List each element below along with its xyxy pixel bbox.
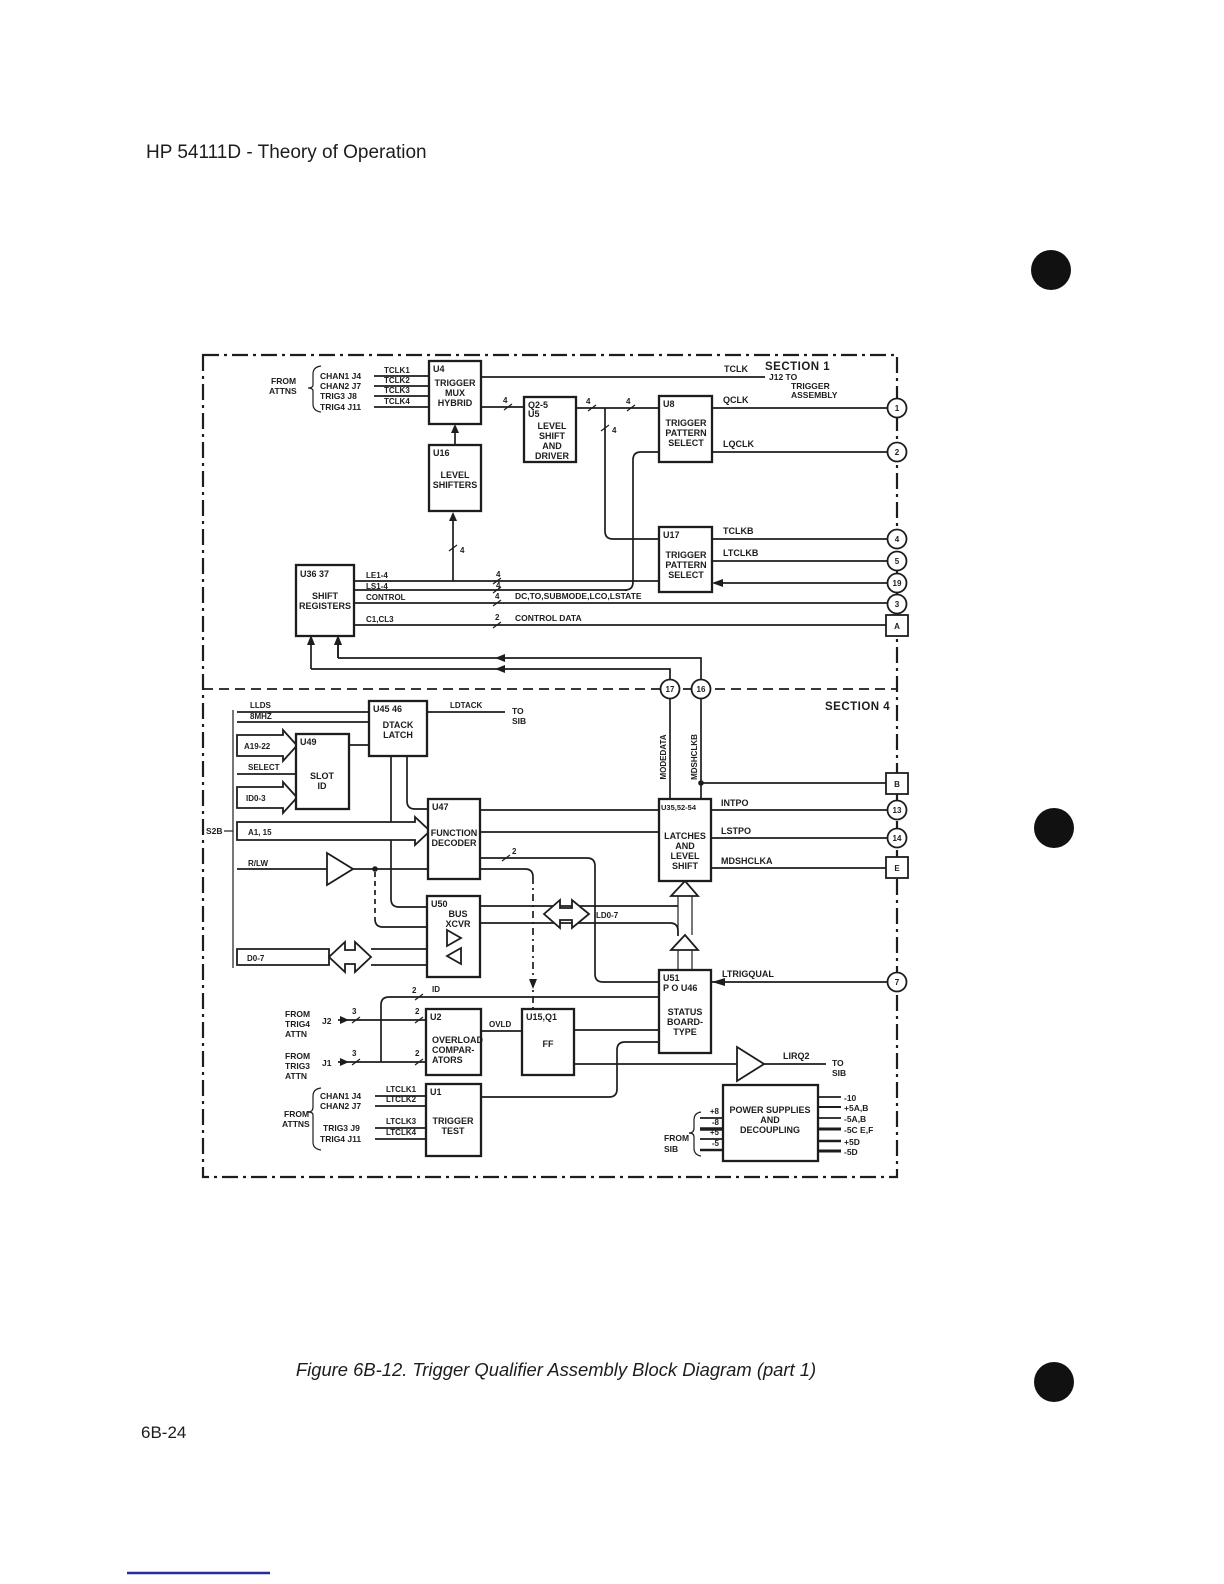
bus ID0-3 into U49 — [237, 782, 297, 813]
wire dashed from R/LW node down to U50 — [375, 872, 427, 927]
svg-text:LD0-7: LD0-7 — [596, 911, 619, 920]
svg-text:7: 7 — [895, 978, 900, 987]
svg-text:FROM: FROM — [664, 1133, 689, 1143]
svg-text:4: 4 — [626, 397, 631, 406]
slot id U49 — [296, 734, 349, 809]
wire OVLD from U2 to FF — [481, 1020, 522, 1031]
svg-text:COMPAR-: COMPAR- — [432, 1045, 474, 1055]
svg-text:19: 19 — [893, 579, 902, 588]
svg-text:LTCLK3: LTCLK3 — [386, 1117, 417, 1126]
wire to connector box B — [701, 782, 886, 784]
svg-text:ID: ID — [432, 985, 440, 994]
svg-text:BOARD-: BOARD- — [667, 1017, 703, 1027]
wire from LE1-4 up into U16, width 4 — [449, 512, 465, 581]
svg-text:2: 2 — [895, 448, 900, 457]
level shift and driver Q2-5 U5 — [524, 397, 576, 462]
svg-text:LEVEL: LEVEL — [670, 851, 700, 861]
svg-text:TRIG3 J9: TRIG3 J9 — [323, 1123, 360, 1133]
svg-text:PATTERN: PATTERN — [665, 560, 706, 570]
svg-text:MODEDATA: MODEDATA — [659, 734, 668, 779]
wire CONTROL from U36 to connector 3 (DC,TO,SUBMODE,LCO,LSTATE), width 4 — [354, 591, 888, 606]
wire U5 to U8, width 4 — [576, 397, 659, 411]
svg-text:SHIFT: SHIFT — [312, 591, 339, 601]
svg-text:TRIGGER: TRIGGER — [665, 418, 707, 428]
wire +8 from SIB — [700, 1107, 723, 1118]
wire FF to U51 — [574, 1029, 659, 1031]
wire +5A,B supply output — [818, 1103, 868, 1113]
svg-text:17: 17 — [666, 685, 675, 694]
svg-text:U2: U2 — [430, 1012, 442, 1022]
svg-text:U50: U50 — [431, 899, 448, 909]
svg-text:5: 5 — [895, 557, 900, 566]
punch dot bottom right — [1034, 1362, 1074, 1402]
svg-text:AND: AND — [542, 441, 562, 451]
flip-flop U15,Q1 — [522, 1009, 574, 1075]
svg-text:POWER SUPPLIES: POWER SUPPLIES — [729, 1105, 810, 1115]
wire LIRQ2 to SIB — [764, 1051, 846, 1078]
svg-text:LTCLK1: LTCLK1 — [386, 1085, 417, 1094]
svg-text:TRIG3 J8: TRIG3 J8 — [320, 391, 357, 401]
svg-text:SIB: SIB — [664, 1144, 678, 1154]
wire TCLK from U4 to J12 — [481, 364, 838, 400]
wire feedback from connector 17 into U36 bottom — [307, 635, 670, 680]
svg-text:16: 16 — [697, 685, 706, 694]
punch dot middle right — [1034, 808, 1074, 848]
svg-text:REGISTERS: REGISTERS — [299, 601, 351, 611]
svg-text:+5: +5 — [710, 1128, 720, 1137]
svg-text:+8: +8 — [710, 1107, 720, 1116]
svg-text:LTRIGQUAL: LTRIGQUAL — [722, 969, 774, 979]
svg-text:2: 2 — [495, 613, 500, 622]
svg-text:S2B: S2B — [206, 826, 223, 836]
svg-text:TRIG4 J11: TRIG4 J11 — [320, 1134, 361, 1144]
svg-text:XCVR: XCVR — [445, 919, 471, 929]
FROM SIB brace label — [664, 1112, 701, 1156]
connector circle 5 — [888, 552, 907, 571]
svg-text:ATORS: ATORS — [432, 1055, 463, 1065]
svg-text:2: 2 — [415, 1007, 420, 1016]
svg-text:2: 2 — [512, 847, 517, 856]
node junction MDSHCLKB to connector B — [698, 780, 704, 786]
svg-text:ID: ID — [318, 781, 328, 791]
wire ID (2) from J lines to U51 — [381, 985, 659, 1062]
svg-text:-8: -8 — [712, 1118, 720, 1127]
node junction on R/LW line — [372, 866, 378, 872]
connector box B — [886, 773, 908, 794]
status board-type U51 P/O U46 — [659, 970, 711, 1053]
svg-text:1: 1 — [895, 404, 900, 413]
svg-text:DECOUPLING: DECOUPLING — [740, 1125, 800, 1135]
input labels FROM TRIG4 ATTN J2 — [285, 1009, 332, 1039]
svg-text:4: 4 — [460, 546, 465, 555]
wire branch down from U5 output to U17, width 4 — [601, 408, 659, 539]
dtack latch U45 46 — [369, 701, 427, 756]
wire FF to LIRQ2 buffer — [574, 1063, 737, 1065]
bus LD0-7 bidirectional symbol — [544, 900, 619, 928]
svg-text:U47: U47 — [432, 802, 449, 812]
svg-text:A1, 15: A1, 15 — [248, 828, 272, 837]
trigger mux hybrid U4 — [429, 361, 481, 424]
svg-text:E: E — [894, 864, 900, 873]
svg-text:U4: U4 — [433, 364, 445, 374]
svg-text:-10: -10 — [844, 1093, 857, 1103]
svg-text:TCLKB: TCLKB — [723, 526, 754, 536]
connector box A — [886, 615, 908, 636]
S2B bus bracket — [206, 710, 233, 968]
wire J2 into U2, width 3 then 2 — [338, 1007, 426, 1024]
wire -10 supply output — [818, 1093, 857, 1103]
wire U47 to U51, width 2 — [480, 847, 659, 982]
buffer for LIRQ2 — [737, 1047, 764, 1081]
wire U47 to U35 upper — [480, 809, 659, 811]
blue rule bottom left — [127, 1572, 270, 1574]
wire LQCLK from U8 to connector 2 — [712, 439, 888, 452]
svg-text:U17: U17 — [663, 530, 680, 540]
svg-text:SHIFT: SHIFT — [539, 431, 566, 441]
wire U47 to U35 lower — [480, 831, 659, 833]
svg-text:STATUS: STATUS — [668, 1007, 703, 1017]
svg-text:LDTACK: LDTACK — [450, 701, 483, 710]
svg-text:6B-24: 6B-24 — [141, 1423, 186, 1442]
svg-text:ATTN: ATTN — [285, 1029, 307, 1039]
svg-text:HYBRID: HYBRID — [438, 398, 473, 408]
svg-text:U35,52-54: U35,52-54 — [661, 803, 697, 812]
svg-text:MDSHCLKA: MDSHCLKA — [721, 856, 773, 866]
wire feedback from connector 16 into U36 bottom — [334, 635, 701, 680]
svg-text:TCLK1: TCLK1 — [384, 366, 410, 375]
wire J1 into U2, width 3 then 2 — [338, 1049, 426, 1066]
svg-text:TO: TO — [832, 1058, 844, 1068]
wire LD0-7 top line from U50 to latch arrow — [480, 905, 678, 907]
connector circle 4 — [888, 530, 907, 549]
wire -5A,B supply output — [818, 1114, 866, 1124]
wire LTRIGQUAL from connector 7 into U51 — [711, 969, 888, 986]
wire TCLKB from U17 to connector 4 — [712, 526, 888, 539]
svg-text:LS1-4: LS1-4 — [366, 582, 388, 591]
svg-text:CHAN1 J4: CHAN1 J4 — [320, 1091, 361, 1101]
punch dot top right — [1031, 250, 1071, 290]
svg-text:U15,Q1: U15,Q1 — [526, 1012, 557, 1022]
connector circle 17 on divider — [661, 680, 680, 699]
wire LTCLK3 into U1 — [375, 1117, 426, 1128]
svg-text:FROM: FROM — [285, 1009, 310, 1019]
svg-text:LQCLK: LQCLK — [723, 439, 754, 449]
shift registers U36 U37 — [296, 565, 354, 636]
svg-text:D0-7: D0-7 — [247, 954, 265, 963]
overload comparators U2 — [426, 1009, 484, 1075]
wire LD0-7 bottom line from U50 — [480, 923, 678, 936]
wire -8 from SIB — [700, 1118, 723, 1129]
svg-text:4: 4 — [495, 592, 500, 601]
wire -5 from SIB — [700, 1139, 723, 1150]
svg-text:4: 4 — [895, 535, 900, 544]
svg-text:SECTION 4: SECTION 4 — [825, 701, 890, 713]
wire from LS1-4 up into U8 lower left — [625, 452, 659, 590]
input labels FROM ATTNS for U1 (CHAN1 J4 / CHAN2 J7 / TRIG3 J9 / TRIG4 J11) — [282, 1088, 361, 1150]
wire TCLK4 into U4 — [374, 397, 429, 407]
svg-text:BUS: BUS — [448, 909, 467, 919]
trigger pattern select U8 — [659, 396, 712, 462]
svg-text:SELECT: SELECT — [248, 763, 280, 772]
wire MDSHCLKA to connector E — [711, 856, 886, 868]
svg-text:QCLK: QCLK — [723, 395, 749, 405]
svg-text:A: A — [894, 622, 900, 631]
power supplies and decoupling box — [723, 1085, 818, 1161]
svg-text:DC,TO,SUBMODE,LCO,LSTATE: DC,TO,SUBMODE,LCO,LSTATE — [515, 591, 642, 601]
svg-text:TRIG4: TRIG4 — [285, 1019, 310, 1029]
wire MDSHCLKB from connector 16 to U35 — [690, 699, 701, 799]
wire TCLK2 into U4 — [374, 376, 429, 386]
svg-text:P O U46: P O U46 — [663, 983, 697, 993]
svg-text:TYPE: TYPE — [673, 1027, 697, 1037]
svg-text:LEVEL: LEVEL — [537, 421, 567, 431]
svg-text:SIB: SIB — [512, 716, 526, 726]
svg-text:AND: AND — [760, 1115, 780, 1125]
svg-text:-5C E,F: -5C E,F — [844, 1125, 873, 1135]
wire +5 from SIB — [700, 1128, 723, 1139]
connector circle 7 — [888, 973, 907, 992]
bus xcvr U50 — [427, 896, 480, 977]
wire LTCLK1 into U1 — [375, 1085, 426, 1096]
connector circle 19 — [888, 574, 907, 593]
svg-text:LSTPO: LSTPO — [721, 826, 751, 836]
wire SELECT into U49 — [237, 763, 296, 774]
wire from U45 down to U50 — [391, 756, 427, 907]
bus A1,15 into U47 — [237, 817, 430, 845]
connector circle 16 on divider — [692, 680, 711, 699]
svg-text:-5: -5 — [712, 1139, 720, 1148]
input labels FROM TRIG3 ATTN J1 — [285, 1051, 332, 1081]
svg-text:FUNCTION: FUNCTION — [431, 828, 478, 838]
wire TCLK3 into U4 — [374, 386, 429, 396]
svg-text:TCLK3: TCLK3 — [384, 386, 410, 395]
svg-text:ASSEMBLY: ASSEMBLY — [791, 390, 838, 400]
svg-text:LATCHES: LATCHES — [664, 831, 706, 841]
svg-text:CONTROL DATA: CONTROL DATA — [515, 613, 582, 623]
svg-text:LTCLK2: LTCLK2 — [386, 1095, 417, 1104]
svg-text:CHAN1 J4: CHAN1 J4 — [320, 371, 361, 381]
svg-text:TRIG4 J11: TRIG4 J11 — [320, 402, 361, 412]
hollow bus arrow into U35 bottom — [671, 881, 698, 935]
wire U16 to U4 with up arrow — [451, 424, 459, 445]
bus A19-22 into U49 — [237, 730, 297, 761]
svg-text:DTACK: DTACK — [383, 720, 414, 730]
wire MODEDATA from connector 17 to U35 — [659, 699, 670, 799]
svg-text:OVLD: OVLD — [489, 1020, 511, 1029]
wire -5C,E,F supply output — [818, 1125, 873, 1135]
svg-text:LE1-4: LE1-4 — [366, 571, 388, 580]
svg-text:14: 14 — [893, 834, 902, 843]
svg-text:3: 3 — [895, 600, 900, 609]
svg-text:-5A,B: -5A,B — [844, 1114, 866, 1124]
wire R/LW with buffer into U47 — [237, 853, 428, 885]
svg-text:C1,CL3: C1,CL3 — [366, 615, 394, 624]
svg-text:B: B — [894, 780, 900, 789]
svg-text:4: 4 — [612, 426, 617, 435]
svg-text:FROM: FROM — [271, 376, 296, 386]
latches and level shift U35,52-54 — [659, 799, 711, 881]
svg-text:CONTROL: CONTROL — [366, 593, 406, 602]
svg-text:FF: FF — [543, 1039, 554, 1049]
wire U4 to U5, width 4 — [481, 396, 524, 410]
section divider dashed line — [203, 688, 897, 690]
svg-text:U8: U8 — [663, 399, 675, 409]
svg-text:SELECT: SELECT — [668, 438, 704, 448]
trigger test U1 — [426, 1084, 481, 1156]
svg-text:+5A,B: +5A,B — [844, 1103, 868, 1113]
wire LTCLK2 into U1 — [375, 1095, 426, 1106]
svg-text:LLDS: LLDS — [250, 701, 272, 710]
svg-text:13: 13 — [893, 806, 902, 815]
svg-text:-5D: -5D — [844, 1147, 858, 1157]
svg-text:4: 4 — [586, 397, 591, 406]
svg-text:2: 2 — [412, 986, 417, 995]
svg-text:2: 2 — [415, 1049, 420, 1058]
svg-text:TCLK4: TCLK4 — [384, 397, 410, 406]
svg-text:J1: J1 — [322, 1058, 332, 1068]
svg-text:R/LW: R/LW — [248, 859, 268, 868]
wire +5D supply output — [818, 1137, 860, 1147]
svg-text:U1: U1 — [430, 1087, 442, 1097]
wire dashed U47 down to U15 Q1 FF — [480, 869, 537, 1009]
svg-text:TCLK: TCLK — [724, 364, 748, 374]
svg-text:ATTN: ATTN — [285, 1071, 307, 1081]
connector circle 3 — [888, 595, 907, 614]
svg-text:DRIVER: DRIVER — [535, 451, 570, 461]
wire LTCLK4 into U1 — [375, 1128, 426, 1139]
svg-text:TRIGGER: TRIGGER — [665, 550, 707, 560]
svg-text:U5: U5 — [528, 409, 540, 419]
svg-text:SHIFTERS: SHIFTERS — [433, 480, 478, 490]
svg-text:8MHZ: 8MHZ — [250, 712, 272, 721]
svg-text:LTCLK4: LTCLK4 — [386, 1128, 417, 1137]
svg-text:Figure 6B-12. Trigger Qualifie: Figure 6B-12. Trigger Qualifier Assembly… — [296, 1359, 816, 1380]
svg-text:PATTERN: PATTERN — [665, 428, 706, 438]
connector circle 13 — [888, 801, 907, 820]
wire from connector 19 into U17 with left arrow — [712, 579, 888, 587]
wire LE1-4 from U36 to U17, width 4 — [354, 570, 659, 584]
svg-text:SHIFT: SHIFT — [672, 861, 699, 871]
svg-text:LIRQ2: LIRQ2 — [783, 1051, 810, 1061]
svg-text:3: 3 — [352, 1007, 357, 1016]
svg-text:TRIGGER: TRIGGER — [434, 378, 476, 388]
svg-text:HP 54111D - Theory of Operatio: HP 54111D - Theory of Operation — [146, 142, 427, 163]
svg-text:3: 3 — [352, 1049, 357, 1058]
wire C1,CL3 CONTROL DATA to connector A, width 2 — [354, 613, 886, 628]
svg-text:LATCH: LATCH — [383, 730, 413, 740]
svg-text:ATTNS: ATTNS — [269, 386, 297, 396]
svg-text:FROM: FROM — [285, 1051, 310, 1061]
assembly boundary dashed border — [203, 355, 897, 1177]
svg-text:+5D: +5D — [844, 1137, 860, 1147]
connector circle 1 — [888, 399, 907, 418]
wire from U45 down to U47 — [407, 756, 428, 809]
svg-text:SIB: SIB — [832, 1068, 846, 1078]
svg-text:U36 37: U36 37 — [300, 569, 329, 579]
svg-text:MUX: MUX — [445, 388, 465, 398]
function decoder U47 — [428, 799, 480, 879]
svg-text:TEST: TEST — [441, 1126, 465, 1136]
wire LTCLKB from U17 to connector 5 — [712, 548, 888, 561]
wire LLDS into U45 — [237, 701, 369, 712]
svg-text:U49: U49 — [300, 737, 317, 747]
input connector labels FROM ATTNS (CHAN1 J4 / CHAN2 J7 / TRIG3 J8 / TRIG4 J11) — [269, 366, 361, 412]
wire INTPO to connector 13 — [711, 798, 888, 810]
svg-text:TRIGGER: TRIGGER — [432, 1116, 474, 1126]
svg-text:4: 4 — [496, 570, 501, 579]
connector box E — [886, 857, 908, 878]
svg-text:TCLK2: TCLK2 — [384, 376, 410, 385]
svg-text:LEVEL: LEVEL — [440, 470, 470, 480]
trigger pattern select U17 — [659, 527, 712, 592]
wire TCLK1 into U4 — [374, 366, 429, 376]
svg-text:U16: U16 — [433, 448, 450, 458]
svg-text:FROM: FROM — [284, 1109, 309, 1119]
svg-text:U45 46: U45 46 — [373, 704, 402, 714]
svg-text:ATTNS: ATTNS — [282, 1119, 310, 1129]
svg-text:LTCLKB: LTCLKB — [723, 548, 759, 558]
svg-text:4: 4 — [503, 396, 508, 405]
svg-text:CHAN2 J7: CHAN2 J7 — [320, 1101, 361, 1111]
svg-text:MDSHCLKB: MDSHCLKB — [690, 734, 699, 780]
svg-text:DECODER: DECODER — [431, 838, 477, 848]
wire LDTACK from U45 to SIB — [427, 701, 526, 726]
wire -5D supply output — [818, 1147, 858, 1157]
level shifters U16 — [429, 445, 481, 511]
svg-text:J2: J2 — [322, 1016, 332, 1026]
wire U49 to U45 — [349, 744, 369, 746]
svg-text:INTPO: INTPO — [721, 798, 749, 808]
connector circle 2 — [888, 443, 907, 462]
svg-text:CHAN2 J7: CHAN2 J7 — [320, 381, 361, 391]
svg-text:AND: AND — [675, 841, 695, 851]
wire U1 output up into U51 — [481, 1042, 659, 1097]
svg-text:U51: U51 — [663, 973, 680, 983]
wire QCLK from U8 to connector 1 — [712, 395, 888, 408]
wire 8MHZ into U45 — [237, 712, 369, 722]
wire LS1-4 from U36 to U8, width 4 — [354, 581, 627, 593]
bus D0-7 bidirectional into U50 — [237, 942, 427, 972]
svg-text:SLOT: SLOT — [310, 771, 335, 781]
wire LSTPO to connector 14 — [711, 826, 888, 838]
svg-text:OVERLOAD: OVERLOAD — [432, 1035, 484, 1045]
svg-text:TRIG3: TRIG3 — [285, 1061, 310, 1071]
svg-text:TO: TO — [512, 706, 524, 716]
svg-text:A19-22: A19-22 — [244, 742, 271, 751]
connector circle 14 — [888, 829, 907, 848]
svg-text:SELECT: SELECT — [668, 570, 704, 580]
svg-text:ID0-3: ID0-3 — [246, 794, 266, 803]
hollow bus arrow from U51 top — [671, 935, 698, 970]
svg-text:4: 4 — [496, 581, 501, 590]
